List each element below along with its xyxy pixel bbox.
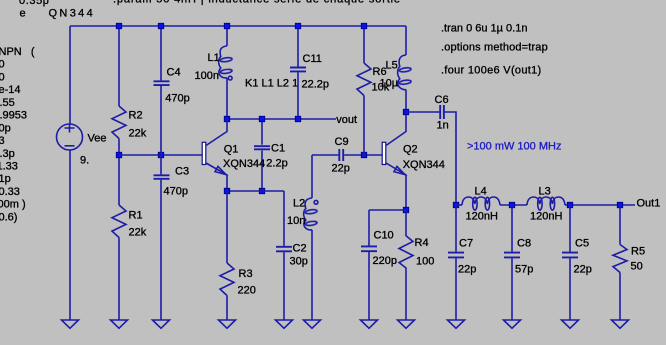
transistor Q1 (202, 119, 227, 191)
svg-text:L1: L1 (208, 52, 220, 64)
svg-text:C9: C9 (335, 136, 349, 148)
wire R5 drop (619, 205, 621, 245)
wire R3 to ground (226, 296, 228, 321)
junction Q2 collector / C6 (403, 109, 409, 115)
capacitor C5 (562, 253, 578, 258)
svg-text:>100 mW 100 MHz: >100 mW 100 MHz (467, 141, 561, 153)
svg-text:9.: 9. (80, 155, 89, 167)
svg-text:C7: C7 (459, 238, 473, 250)
wire C2 to ground (283, 252, 285, 320)
inductor L4 (462, 197, 500, 210)
junction Q1 collector (224, 116, 230, 122)
wire R4 to ground (405, 268, 407, 321)
resistor R2 (112, 106, 126, 139)
wire C7 drop (455, 205, 457, 252)
inductor L1 (219, 46, 233, 80)
svg-text:30p: 30p (290, 256, 308, 268)
ground (C2) (276, 320, 293, 328)
junction C1-emitter net (259, 188, 265, 194)
svg-text:2.2p: 2.2p (266, 158, 287, 170)
svg-text:470p: 470p (165, 93, 189, 105)
ground (C10) (361, 320, 378, 328)
wire emitter node Q1 (227, 190, 284, 192)
svg-text:C2: C2 (293, 243, 307, 255)
inductor L2 (304, 198, 318, 230)
wire L2 to ground (311, 230, 313, 320)
svg-text:1p: 1p (0, 173, 11, 185)
svg-text:.tran 0 6u 1µ 0.1n: .tran 0 6u 1µ 0.1n (441, 23, 527, 35)
svg-text:22k: 22k (129, 227, 147, 239)
svg-text:Out1: Out1 (637, 198, 661, 210)
svg-text:0p: 0p (0, 122, 11, 134)
svg-text:.four 100e6 V(out1): .four 100e6 V(out1) (441, 65, 541, 77)
svg-text:R5: R5 (631, 246, 645, 258)
junction base node left (116, 152, 122, 158)
svg-text:22k: 22k (129, 128, 147, 140)
svg-text:100n: 100n (195, 70, 219, 82)
wire base net horizontal (119, 154, 203, 156)
svg-text:R4: R4 (415, 237, 429, 249)
wire L3 to Out1 (565, 204, 635, 206)
capacitor C7 (448, 253, 464, 258)
junction ladder node 1 (453, 202, 459, 208)
wire vout line (227, 118, 336, 120)
svg-text:470p: 470p (164, 186, 188, 198)
svg-text:K1 L1 L2 1: K1 L1 L2 1 (245, 78, 298, 90)
wire C11 to vout (297, 72, 299, 119)
svg-text:0: 0 (0, 59, 5, 71)
svg-text:R3: R3 (239, 268, 253, 280)
ground (V1) (62, 320, 79, 328)
wire left drop to source (69, 26, 71, 124)
svg-text:L4: L4 (475, 186, 487, 198)
wire C10 to ground (368, 252, 370, 320)
svg-text:C6: C6 (435, 94, 449, 106)
wire C10 drop (368, 210, 370, 246)
wire C9 left net (312, 154, 338, 156)
svg-text:0.6): 0.6) (0, 211, 17, 223)
svg-text:22p: 22p (574, 264, 592, 276)
svg-text:.options method=trap: .options method=trap (441, 42, 548, 54)
svg-text:220: 220 (238, 285, 256, 297)
inductor L3 (527, 197, 565, 210)
wire C6 right and drop (445, 112, 456, 205)
resistor R4 (399, 236, 413, 268)
junction vout-C1 (259, 116, 265, 122)
ground (R5) (612, 320, 629, 328)
wire ladder to L4 (456, 204, 462, 206)
inductor L5 (398, 55, 412, 90)
wire C1 to emitter node (261, 151, 263, 192)
svg-text:e: e (20, 8, 26, 20)
svg-text:10n: 10n (287, 215, 305, 227)
svg-text:120nH: 120nH (530, 211, 562, 223)
wire R1 to ground (118, 238, 120, 321)
wire rail to C11 (297, 26, 299, 67)
svg-text:XQN344: XQN344 (403, 159, 445, 171)
wire C2 branch (283, 191, 285, 246)
svg-text:50: 50 (631, 261, 643, 273)
capacitor C11 (290, 68, 306, 72)
transistor Q2 (382, 112, 406, 210)
svg-text:.3p: .3p (0, 148, 15, 160)
svg-text:C11: C11 (303, 53, 322, 65)
wire R3 branch (226, 191, 228, 263)
svg-text:22p: 22p (332, 163, 350, 175)
junction Q1 emitter (224, 188, 230, 194)
capacitor C4 (154, 81, 170, 85)
capacitor C8 (504, 253, 520, 258)
svg-text:Q2: Q2 (403, 144, 418, 156)
svg-text:22.2p: 22.2p (302, 79, 330, 91)
svg-text:1.33: 1.33 (0, 161, 18, 173)
junction base net at C3/C4 (158, 152, 164, 158)
voltage source V1 Vee (57, 124, 83, 151)
resistor R1 (112, 205, 126, 238)
capacitor C2 (276, 247, 292, 252)
ground (C7) (448, 320, 465, 328)
ground (C5) (562, 320, 579, 328)
svg-text:R1: R1 (129, 210, 143, 222)
wire L2 drop (311, 155, 313, 198)
junction C11-vout (295, 116, 301, 122)
svg-text:C3: C3 (175, 166, 189, 178)
svg-text:120nH: 120nH (466, 211, 498, 223)
svg-text:Vee: Vee (88, 133, 107, 145)
ground (L2) (304, 320, 321, 328)
wire C5 drop (569, 205, 571, 252)
wire rail to C4 (160, 26, 162, 80)
svg-text:100: 100 (416, 256, 434, 268)
svg-text:C5: C5 (575, 238, 589, 250)
svg-text:10µ: 10µ (380, 78, 399, 90)
svg-text:.55: .55 (0, 97, 15, 109)
svg-text:L3: L3 (539, 186, 551, 198)
svg-text:.param 50 4nH | inductance s: .param 50 4nH | inductance serie de chaq… (113, 0, 401, 6)
svg-text:C1: C1 (271, 143, 285, 155)
wire L4 to L3 (500, 204, 527, 206)
junction ladder node 2 (509, 202, 515, 208)
wire source to ground (69, 150, 71, 320)
capacitor C1 (254, 146, 270, 149)
resistor R6 (357, 63, 371, 96)
junction rail-L1 (224, 23, 230, 29)
resistor R3 (220, 263, 234, 296)
wire L5 to C6 node (405, 90, 407, 112)
junction R6-base (361, 152, 367, 158)
wire R6 to base net (363, 96, 365, 156)
svg-text:220p: 220p (373, 255, 397, 267)
wire R4 branch (405, 210, 407, 236)
svg-text:00m ): 00m ) (0, 199, 26, 211)
junction rail-C11 (295, 23, 301, 29)
wire vout to C1 (261, 119, 263, 145)
junction rail-R6 (361, 23, 367, 29)
wire C9 right net to Q2 base (344, 154, 383, 156)
ground (C8) (504, 320, 521, 328)
junction Q2 emitter (403, 207, 409, 213)
wire rail to R6 (363, 26, 365, 63)
ground (R4) (398, 320, 415, 328)
svg-text:e-14: e-14 (0, 84, 21, 96)
svg-text:1n: 1n (437, 120, 449, 132)
capacitor C9 (339, 149, 343, 161)
svg-text:NPN (: NPN ( (0, 46, 35, 58)
svg-text:0.33: 0.33 (0, 186, 20, 198)
wire C6 left (406, 111, 439, 113)
svg-text:Q1: Q1 (224, 143, 239, 155)
wire R5 to ground (619, 273, 621, 321)
wire C3 to ground (160, 180, 162, 320)
wire L1 to vout node (226, 78, 228, 119)
wire C4 to C3 (160, 86, 162, 174)
wire C8 to ground (511, 258, 513, 320)
junction rail-C4 (158, 23, 164, 29)
svg-text:C4: C4 (167, 67, 181, 79)
junction ladder node 3 (567, 202, 573, 208)
wire rail to L1 (226, 26, 228, 46)
wire top rail (70, 25, 406, 27)
svg-text:L2: L2 (293, 198, 305, 210)
svg-text:22p: 22p (458, 264, 476, 276)
svg-text:QN344: QN344 (49, 8, 96, 20)
svg-text:L5: L5 (386, 60, 398, 72)
ground (R3) (219, 320, 236, 328)
svg-text:C8: C8 (517, 238, 531, 250)
svg-text:0.35p: 0.35p (19, 0, 50, 7)
wire C5 to ground (569, 258, 571, 320)
wire C7 to ground (455, 258, 457, 320)
wire R2 to R1 (118, 139, 120, 206)
ground (C3) (153, 320, 170, 328)
svg-text:R2: R2 (129, 110, 143, 122)
svg-text:57p: 57p (515, 264, 533, 276)
svg-text:XQN344: XQN344 (223, 158, 265, 170)
svg-text:vout: vout (336, 114, 357, 126)
capacitor C3 (154, 175, 170, 179)
resistor R5 (613, 245, 627, 273)
svg-text:3: 3 (0, 135, 5, 147)
capacitor C6 (440, 105, 444, 119)
junction R5 node (617, 202, 623, 208)
wire rail to R2 (118, 26, 120, 106)
wire C8 drop (511, 205, 513, 252)
wire rail to L5 (405, 26, 407, 55)
svg-text:.9953: .9953 (0, 110, 27, 122)
svg-text:C10: C10 (374, 230, 394, 242)
model text column (left clipped) (0, 46, 35, 224)
junction rail-R2 (116, 23, 122, 29)
ground (R1) (111, 320, 128, 328)
svg-text:R6: R6 (373, 66, 387, 78)
svg-text:0: 0 (0, 71, 5, 83)
capacitor C10 (361, 246, 377, 251)
wire C10 link (369, 209, 406, 211)
